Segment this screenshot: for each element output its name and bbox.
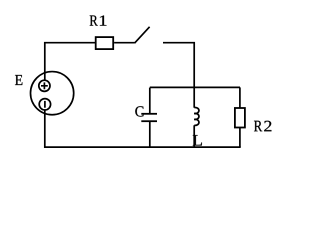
wire R2 bottom down to bottom wire: [239, 128, 241, 148]
resistor R1: [96, 37, 114, 49]
label R2: [254, 121, 271, 132]
resistor R2: [235, 108, 245, 128]
label R1: [90, 15, 107, 25]
inductor L coil: [194, 108, 199, 126]
wire inductor bottom down to bottom wire: [193, 125, 195, 147]
wire bar down to capacitor top plate: [149, 88, 151, 114]
wire switch contact right and down to top bar: [163, 43, 194, 88]
label C: [135, 106, 143, 116]
wire bar down to R2 top: [239, 87, 241, 108]
wire from source positive terminal up and right to R1: [45, 43, 96, 80]
label E: [15, 75, 22, 85]
wire R1 to switch pivot: [114, 42, 134, 44]
wire top bar of parallel section: [150, 86, 240, 88]
wire bar down to inductor top: [193, 88, 195, 108]
switch S blade (open): [135, 27, 150, 43]
capacitor C plates: [141, 114, 157, 121]
wire bottom return from R2 branch to source negative terminal: [45, 110, 241, 147]
wire capacitor bottom plate down to bottom wire: [149, 122, 151, 147]
label L: [193, 135, 202, 145]
source E: [30, 72, 73, 115]
